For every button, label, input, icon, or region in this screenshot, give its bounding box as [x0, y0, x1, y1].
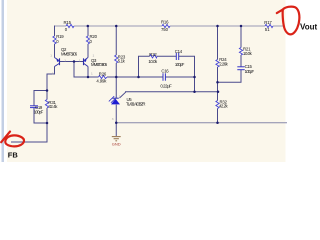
- svg-text:MMBT3906: MMBT3906: [91, 62, 108, 67]
- svg-text:1: 1: [52, 72, 54, 76]
- svg-text:Vout: Vout: [300, 23, 318, 32]
- svg-text:1: 1: [93, 54, 95, 58]
- svg-text:100pF: 100pF: [175, 62, 185, 67]
- svg-text:C16: C16: [161, 69, 169, 74]
- svg-text:R26: R26: [99, 72, 107, 77]
- svg-text:10.0k: 10.0k: [243, 51, 253, 56]
- svg-text:5.1k: 5.1k: [118, 58, 126, 63]
- svg-text:4.99k: 4.99k: [96, 79, 107, 84]
- svg-text:C14: C14: [175, 49, 183, 54]
- svg-text:GND: GND: [112, 141, 121, 146]
- svg-text:R22: R22: [149, 52, 157, 57]
- svg-text:0.22µF: 0.22µF: [160, 83, 172, 88]
- svg-text:1: 1: [50, 54, 52, 58]
- svg-text:51: 51: [265, 27, 270, 32]
- svg-text:R15: R15: [64, 20, 72, 25]
- svg-text:R16: R16: [161, 20, 169, 25]
- svg-text:32.4k: 32.4k: [48, 104, 58, 109]
- svg-text:750: 750: [161, 27, 169, 32]
- svg-text:100pF: 100pF: [245, 69, 255, 74]
- svg-text:3: 3: [112, 117, 114, 121]
- svg-text:1: 1: [91, 72, 93, 76]
- svg-text:1: 1: [64, 58, 66, 62]
- svg-text:1: 1: [79, 58, 81, 62]
- svg-text:1: 1: [119, 95, 121, 99]
- svg-text:FB: FB: [8, 150, 19, 159]
- svg-text:R17: R17: [264, 20, 272, 25]
- svg-text:100pF: 100pF: [34, 109, 44, 114]
- svg-text:MMBT3906: MMBT3906: [61, 51, 78, 56]
- svg-text:10.0k: 10.0k: [148, 59, 158, 64]
- svg-text:42.2k: 42.2k: [219, 104, 228, 109]
- svg-text:TL431AIDBZR: TL431AIDBZR: [126, 102, 146, 107]
- svg-text:2.26k: 2.26k: [219, 61, 228, 66]
